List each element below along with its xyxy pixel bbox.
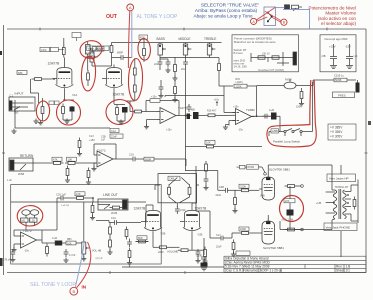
wire to V1B grid	[126, 57, 132, 59]
resistor 2K2B under jack	[110, 206, 123, 209]
U2A ground	[14, 243, 18, 245]
red selector wires	[256, 8, 281, 23]
note box outline	[232, 35, 299, 72]
tube V1B	[102, 65, 123, 92]
svg-text:10K: 10K	[67, 241, 72, 245]
red ellipse V1B cathode	[105, 99, 133, 125]
svg-text:14, B, 180: 14, B, 180	[234, 65, 248, 69]
svg-text:TREBLE: TREBLE	[204, 37, 216, 41]
svg-text:-15v: -15v	[24, 250, 30, 253]
U2B plus input gnd	[229, 120, 236, 122]
svg-text:1uF: 1uF	[101, 139, 106, 142]
svg-text:V3B: V3B	[260, 195, 265, 198]
svg-text:TL072: TL072	[23, 229, 32, 233]
coupling cap C2 top	[85, 55, 98, 60]
svg-text:TL072: TL072	[97, 149, 106, 153]
red ellipse V1A cathode big	[57, 100, 81, 125]
tone rail wire	[112, 42, 222, 44]
cap C3	[118, 55, 126, 60]
svg-text:+UB: +UB	[316, 201, 321, 205]
V1B output wire down	[125, 99, 135, 112]
svg-text:10K: 10K	[206, 141, 211, 145]
loop module box outline	[11, 185, 162, 265]
resistor column above RETURN opamp	[78, 138, 81, 151]
svg-text:10K: 10K	[68, 157, 73, 161]
U1B feedback wire	[94, 144, 116, 159]
svg-text:B: B	[72, 289, 75, 294]
V1A plate resistor column	[63, 38, 66, 65]
grid resistor top power	[239, 189, 252, 192]
selector contacts	[267, 12, 273, 22]
svg-text:+15v: +15v	[166, 129, 172, 132]
middle vertical resistors with grounds	[172, 81, 191, 112]
svg-text:SELECTOR "TRUE VALVE": SELECTOR "TRUE VALVE"	[201, 3, 260, 8]
svg-text:680P: 680P	[117, 51, 123, 55]
PI coupling cap below	[175, 206, 180, 214]
dual loop level pot (circled red)	[21, 210, 43, 230]
svg-text:LINE OUT: LINE OUT	[103, 193, 118, 197]
PRES box	[333, 92, 355, 98]
svg-text:6K8: 6K8	[138, 236, 143, 240]
wire from tone stack to U2B	[165, 96, 236, 116]
mixer wire row y=128	[15, 100, 110, 128]
wire input to V1A grid	[30, 78, 54, 103]
master volume pot top	[285, 5, 303, 11]
svg-text:12AX7B: 12AX7B	[48, 62, 60, 66]
svg-text:el selector abajo): el selector abajo)	[321, 21, 356, 26]
C1A coupling cap into PI	[112, 220, 120, 225]
svg-text:V1A: V1A	[72, 93, 77, 97]
resistor R5 vertical right of vol	[110, 43, 113, 56]
svg-text:+15v: +15v	[233, 106, 239, 109]
volume pot in blob	[86, 41, 94, 71]
tone caps under middle	[183, 59, 188, 67]
svg-text:C.1: C.1	[10, 94, 14, 97]
svg-text:+15v: +15v	[151, 96, 157, 99]
bias network between tubes (red circled)	[284, 199, 295, 222]
resistor 220K tail	[157, 246, 170, 249]
svg-text:(+6: (+6	[354, 54, 358, 58]
svg-text:(2)uF: (2)uF	[196, 255, 202, 258]
shunt resistor R24 + gnd	[87, 168, 90, 181]
svg-text:220K: 220K	[158, 251, 164, 254]
U2B output wire	[252, 115, 281, 131]
svg-text:-15v: -15v	[238, 129, 244, 132]
svg-text:A/BB: A/BB	[272, 130, 278, 133]
decoupling box outline	[320, 35, 356, 72]
line out jack J3	[98, 199, 128, 210]
resistor R8 to rail	[139, 35, 148, 39]
resistor R30	[74, 197, 87, 200]
cap + resistor under opamp	[64, 249, 69, 257]
plate wires to OT	[268, 165, 332, 230]
svg-text:C1A: C1A	[111, 217, 116, 220]
svg-text:22uF: 22uF	[216, 194, 222, 197]
title block text	[225, 256, 350, 272]
PI network box	[158, 174, 197, 207]
svg-text:-15V: -15V	[345, 45, 351, 49]
long wire y=202	[11, 201, 146, 203]
shunt resistor in loop	[91, 203, 94, 216]
svg-text:100K: 100K	[41, 49, 47, 52]
U1B gnd	[93, 163, 95, 168]
C4B bubble label	[168, 176, 180, 180]
svg-text:C10: C10	[129, 153, 134, 157]
resistor 10K out	[52, 242, 66, 244]
svg-text:L7B.uF: L7B.uF	[3, 259, 11, 262]
red blob lower lobe	[81, 56, 97, 92]
border frame left outer line	[3, 25, 5, 275]
output cap C10	[130, 157, 138, 162]
svg-text:SLOVTEK 5B81: SLOVTEK 5B81	[263, 246, 284, 250]
diode/cap black component D1	[55, 241, 62, 246]
svg-text:B trous: B trous	[234, 51, 244, 55]
svg-text:MIDDLE: MIDDLE	[179, 37, 191, 41]
input jack J1	[9, 97, 35, 111]
svg-text:(solo activo en con: (solo activo en con	[318, 16, 357, 21]
svg-text:220K: 220K	[236, 84, 242, 88]
series black cap 2	[262, 114, 270, 119]
reverb pot oval	[257, 79, 303, 89]
svg-text:+V 385V: +V 385V	[330, 126, 343, 130]
treble slope resistor	[218, 61, 221, 74]
junction label box	[247, 165, 259, 169]
svg-text:2K2B: 2K2B	[111, 212, 117, 215]
svg-text:C+B: C+B	[52, 237, 57, 240]
svg-text:L.uF 1B: L.uF 1B	[61, 205, 69, 207]
svg-text:Abajo: se anula Loop y Tono: Abajo: se anula Loop y Tono	[193, 14, 252, 19]
tube V1A	[52, 65, 73, 92]
svg-text:(4B: (4B	[322, 54, 326, 58]
red circle B selector	[281, 19, 287, 25]
electrolytic cap black bar	[356, 83, 360, 93]
svg-text:OUT: OUT	[106, 14, 118, 20]
svg-text:C21B 1u: C21B 1u	[334, 75, 344, 78]
svg-text:22nF: 22nF	[111, 134, 117, 138]
svg-text:HB: HB	[22, 219, 26, 222]
svg-text:VOL: VOL	[88, 46, 94, 50]
svg-text:Vers Jack PHONE: Vers Jack PHONE	[326, 225, 351, 229]
grid resistor under C1A	[125, 227, 128, 240]
svg-text:VOLUME: VOLUME	[167, 250, 179, 254]
out pot VR1B	[82, 202, 89, 258]
red loop parallel switch	[267, 80, 316, 147]
svg-text:RETURN: RETURN	[20, 154, 34, 158]
svg-text:220K: 220K	[240, 184, 246, 188]
tube V2A (PI left)	[141, 207, 162, 234]
svg-text:+15v: +15v	[214, 99, 220, 102]
svg-text:RB6: RB6	[67, 239, 72, 241]
screen resistors	[285, 185, 298, 188]
PI wires	[96, 221, 204, 251]
U2A output wire	[40, 239, 43, 241]
svg-text:V2B: V2B	[161, 232, 166, 236]
resistor right tail	[178, 249, 191, 252]
decoupling cap -15V	[346, 44, 353, 69]
svg-text:22n: 22n	[154, 63, 159, 66]
svg-text:5K6B: 5K6B	[335, 78, 342, 82]
svg-text:C17: C17	[216, 234, 221, 237]
red ellipse power bias	[279, 195, 304, 222]
svg-text:22n: 22n	[181, 68, 186, 71]
svg-text:Potenciometro de Nivel: Potenciometro de Nivel	[309, 5, 357, 10]
op-amp U1A TL072	[157, 108, 179, 124]
svg-text:VOL.HB: VOL.HB	[92, 250, 102, 253]
grid resistor R1 label boxes	[17, 71, 27, 75]
slope components mid row	[174, 62, 177, 75]
svg-text:C+B: C+B	[269, 109, 274, 112]
right column x=206	[205, 161, 208, 174]
V1B plate resistors (tall circled)	[133, 58, 136, 99]
op-amp U2A output stage	[18, 232, 40, 248]
cathode RC V1A (circled)	[62, 92, 75, 124]
selector box	[264, 7, 276, 26]
svg-text:2K6B: 2K6B	[18, 173, 24, 176]
svg-text:+15V: +15V	[89, 139, 95, 142]
wire to opamp	[33, 162, 51, 164]
volume pot boxed labels	[87, 46, 97, 50]
svg-text:Sheet:: Sheet:	[336, 269, 345, 273]
Vers Jacks HP box	[327, 174, 356, 182]
svg-text:MB: MB	[191, 109, 195, 112]
svg-text:Master Volume: Master Volume	[325, 11, 356, 16]
red ellipse loop level pots	[17, 205, 44, 227]
svg-text:Comfoun DT (COM): Comfoun DT (COM)	[258, 68, 284, 72]
voltage list box	[328, 124, 356, 140]
grid leak resistor top + gnd	[234, 195, 237, 208]
selector arrows black	[268, 13, 272, 21]
svg-text:+15V: +15V	[329, 45, 336, 49]
svg-text:Arriba: ByPass (como estaba): Arriba: ByPass (como estaba)	[195, 8, 258, 13]
note box text	[234, 36, 284, 72]
svg-text:1/1: 1/1	[346, 269, 351, 273]
scan edge marks	[0, 51, 371, 266]
svg-text:22K: 22K	[285, 200, 290, 203]
decoupling cap +15V	[330, 44, 337, 69]
input resistor R41	[205, 114, 218, 117]
svg-text:+V 355V: +V 355V	[330, 130, 343, 134]
bottom bus wire	[122, 266, 224, 268]
coupling cap C17 bottom	[218, 236, 226, 241]
output resistor 560R	[138, 158, 144, 160]
blob resistor	[87, 70, 90, 83]
loop switch contacts	[279, 129, 308, 137]
red circle A selector	[251, 18, 257, 24]
svg-text:BASS: BASS	[157, 37, 166, 41]
cathode resistor R3 + cap (circled small)	[38, 98, 44, 125]
OT secondary resistor	[353, 197, 356, 210]
resistor 5K6B horizontal	[334, 78, 347, 82]
op-amp U1B return	[94, 151, 116, 167]
svg-text:12AX7B: 12AX7B	[134, 207, 146, 211]
svg-text:560R: 560R	[145, 157, 151, 161]
red ellipse around volume pot	[79, 39, 103, 59]
svg-text:TL0B2: TL0B2	[246, 108, 255, 112]
blue selector title	[193, 3, 259, 19]
wire onward to PI	[154, 159, 186, 166]
svg-text:(Cap C.S.R. F(ilename 1BO0P-: (Cap C.S.R. F(ilename 1BO0P-1 (-20-a)	[225, 269, 282, 273]
red wire from A down	[128, 11, 129, 68]
svg-text:TR BFGL.BT: TR BFGL.BT	[335, 186, 349, 189]
OT primary connections	[326, 190, 335, 220]
C12 label boxes	[110, 129, 119, 133]
svg-text:INPUT: INPUT	[15, 92, 24, 96]
svg-text:4.7uF: 4.7uF	[69, 254, 76, 257]
blue wire to B	[75, 241, 84, 287]
op-amp U2B	[233, 109, 255, 125]
PI tail resistor right	[188, 184, 191, 197]
svg-text:RV5B: RV5B	[285, 79, 292, 82]
wires from switch	[269, 82, 313, 136]
svg-text:Branchez sur la cranatu de ser: Branchez sur la cranatu de serie	[234, 40, 276, 44]
red ellipse V1A plate resistor	[137, 38, 151, 60]
OT primary winding	[333, 189, 346, 219]
svg-text:SEL TONE Y LOOP: SEL TONE Y LOOP	[30, 282, 76, 288]
treble pot P4	[207, 43, 215, 58]
red text Potenciometro	[309, 5, 357, 26]
svg-text:AL TONE Y LOOP: AL TONE Y LOOP	[137, 14, 179, 20]
return series resistor R20	[51, 162, 64, 165]
wires bottom power grid	[196, 211, 259, 238]
input resistor R10	[132, 110, 145, 113]
middle pot P3	[183, 43, 191, 60]
grounds under mixer	[33, 119, 38, 124]
bass pot P2	[158, 43, 166, 60]
V1B cathode RC (circled)	[114, 92, 128, 125]
svg-text:100K: 100K	[296, 106, 302, 109]
feedback resistor R11	[145, 101, 180, 116]
svg-text:C20 1uF: C20 1uF	[56, 193, 66, 197]
return series resistor R21	[65, 162, 78, 165]
coupling cap C4B top	[223, 188, 231, 193]
svg-text:V2B: V2B	[198, 233, 203, 237]
volume pot P1 (circled)	[90, 50, 103, 66]
blue wire selector to pot	[276, 8, 310, 29]
PI tail chain right	[201, 238, 208, 271]
red tall ellipse V1B plate resistors	[128, 58, 143, 100]
svg-text:Decoupl age MDF: Decoupl age MDF	[325, 37, 349, 41]
grid leak resistor bottom + gnd	[232, 240, 235, 253]
red circle B bottom	[70, 287, 78, 295]
svg-text:L.uF: L.uF	[7, 179, 12, 182]
svg-text:L5K 1K: L5K 1K	[262, 53, 270, 56]
red wire pot to B	[77, 242, 91, 288]
U2B feedback resistor 22K	[224, 86, 257, 116]
plate resistor label box	[40, 47, 50, 51]
border frame bottom line	[7, 272, 366, 274]
svg-text:47K: 47K	[76, 192, 81, 196]
svg-text:C2 22n: C2 22n	[86, 51, 95, 55]
opamp output wire	[179, 115, 192, 117]
loop switch label box	[271, 129, 279, 133]
power tube V3	[259, 174, 274, 201]
wire row y=85	[302, 80, 330, 86]
U2A feedback	[14, 230, 42, 240]
cap at left edge of loop box	[10, 249, 15, 257]
svg-text:+V 305V: +V 305V	[330, 134, 343, 138]
left column resistors x=110	[109, 224, 112, 237]
shunt resistor R23 + gnd	[66, 166, 69, 179]
labels above return resistors	[52, 157, 62, 161]
tube V2B (PI right)	[180, 207, 201, 234]
blue wire from A down	[131, 11, 133, 58]
PI tail components	[196, 249, 201, 257]
OT secondary taps	[345, 180, 359, 224]
svg-text:IN: IN	[82, 285, 87, 290]
svg-text:220K: 220K	[240, 227, 246, 231]
red circle A top	[127, 4, 134, 11]
return jack J2	[9, 158, 33, 171]
svg-text:L2B: L2B	[31, 219, 36, 222]
PI tail resistor left	[168, 184, 171, 197]
series cap black	[187, 114, 191, 120]
svg-text:22uF: 22uF	[216, 246, 222, 249]
svg-text:C4B: C4B	[219, 186, 224, 189]
svg-text:68K: 68K	[18, 71, 23, 75]
border frame right line	[365, 29, 367, 273]
title block table	[224, 256, 366, 272]
cap C20 1uF	[58, 196, 66, 201]
svg-text:A: A	[129, 5, 132, 10]
label box above title block	[236, 251, 250, 255]
resistor vertical w gnd right-mid	[300, 89, 303, 102]
svg-text:C4B: C4B	[169, 177, 174, 181]
svg-text:R16 4K7: R16 4K7	[207, 110, 217, 113]
wire across loop box top	[42, 197, 94, 230]
note box inner circuit	[251, 52, 297, 66]
red ellipse V1A cathode small	[36, 101, 50, 122]
svg-text:(2).uF: (2).uF	[96, 256, 103, 260]
border frame top line	[7, 28, 366, 30]
svg-text:C13: C13	[89, 135, 94, 138]
send wire row y=146.5	[186, 146, 263, 148]
wires top power grid	[186, 171, 260, 191]
svg-text:Parallel Loop Switch: Parallel Loop Switch	[273, 140, 301, 144]
svg-text:C12: C12	[111, 129, 116, 133]
opamp ground + supplies	[146, 120, 148, 127]
svg-text:Vers Jacks HP: Vers Jacks HP	[329, 176, 349, 180]
svg-text:47K: 47K	[53, 157, 58, 161]
Vers Jack PHONE box	[324, 223, 357, 231]
grid resistor bottom power	[239, 232, 252, 235]
power tube V4	[259, 218, 274, 245]
vertical chain mid-bottom	[127, 239, 132, 265]
tone caps under bass	[158, 59, 163, 67]
svg-text:PRES: PRES	[338, 93, 346, 97]
resistor 6K8	[136, 240, 149, 243]
svg-text:SLOVTEK 5B81: SLOVTEK 5B81	[269, 168, 290, 172]
svg-text:L(22K): L(22K)	[236, 81, 243, 84]
label under cathode	[49, 101, 54, 105]
svg-text:R51B: R51B	[248, 165, 255, 169]
